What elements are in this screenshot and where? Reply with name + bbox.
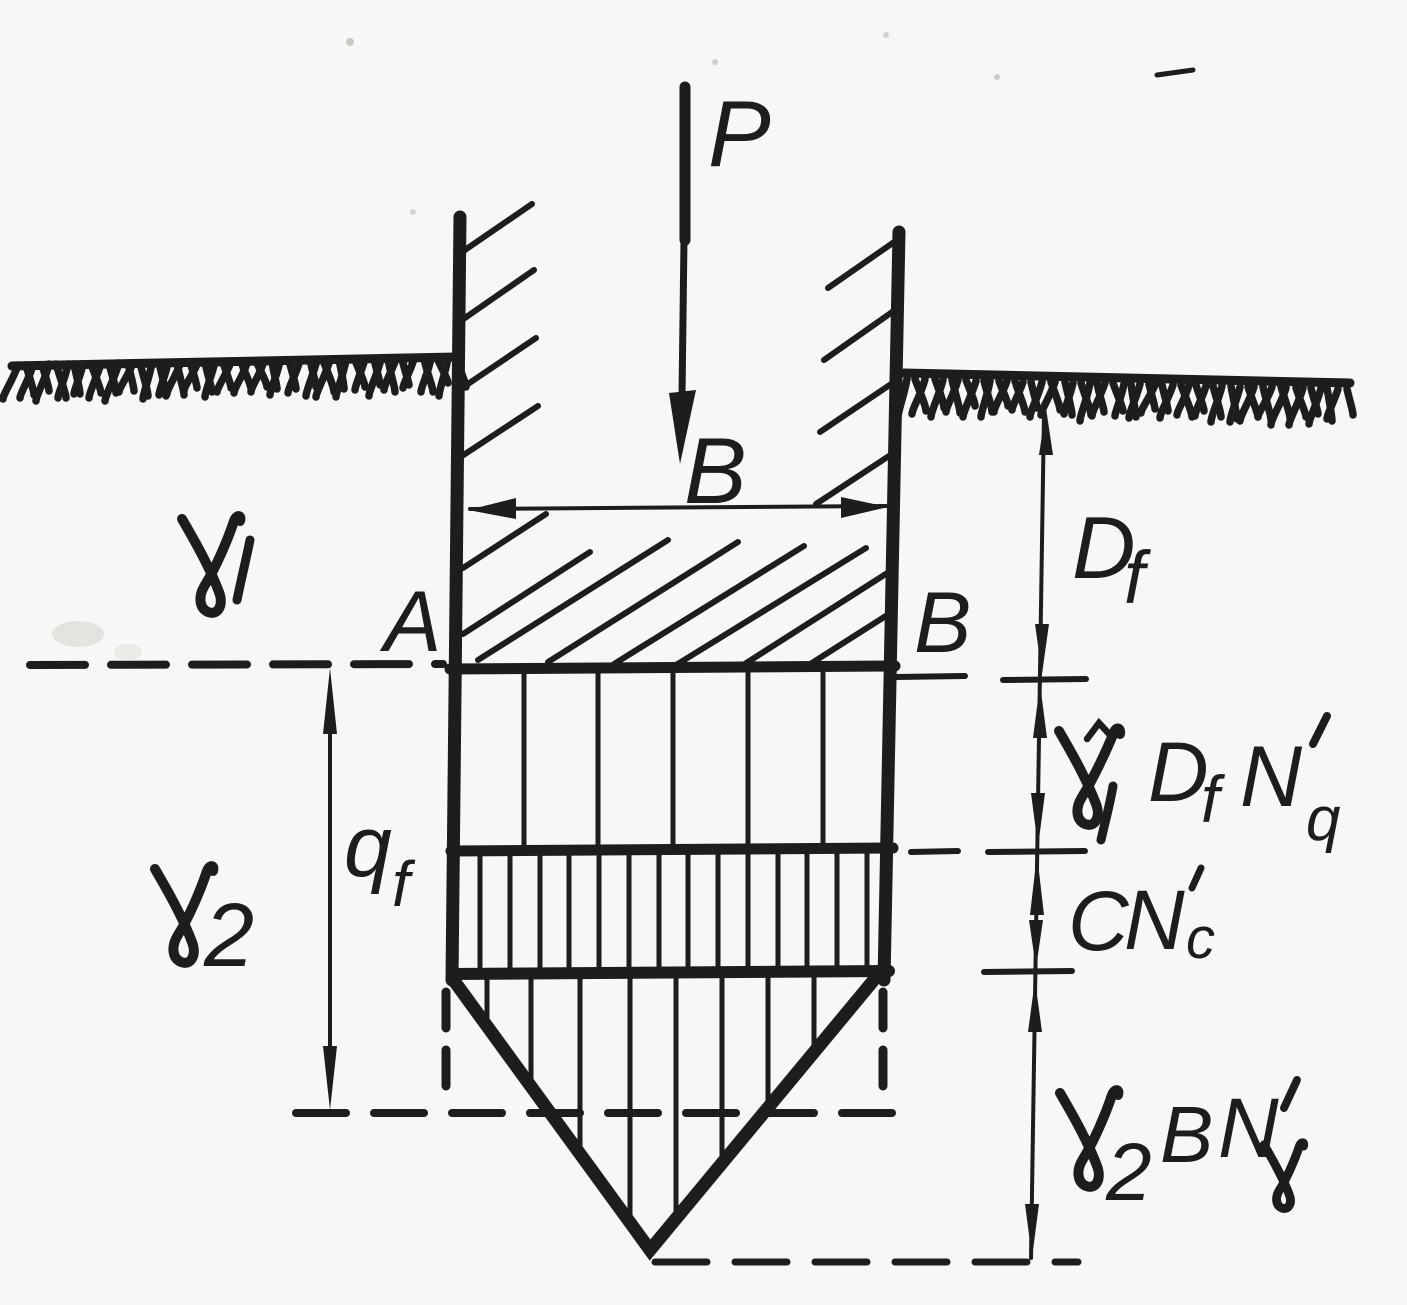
svg-text:q: q (344, 799, 392, 895)
label q_f (344, 799, 416, 920)
svg-text:N: N (1124, 873, 1185, 967)
load arrow P head (669, 390, 696, 464)
svg-text:2: 2 (203, 886, 254, 986)
failure wedge triangle (452, 978, 873, 1250)
left wall of excavation (452, 217, 460, 980)
footing base line AB (450, 666, 895, 669)
label C N'_c (1068, 868, 1215, 971)
ground surface left (12, 357, 456, 366)
svg-text:f: f (1201, 762, 1226, 836)
q_f dimension line (328, 700, 332, 1080)
label gamma2 B N'_gamma (1060, 1080, 1304, 1218)
dashed wedge-depth level line (296, 1109, 893, 1117)
q_f top arrowhead (323, 668, 337, 734)
svg-text:2: 2 (1105, 1127, 1152, 1218)
svg-text:D: D (1148, 725, 1209, 819)
cohesion band comb lines (480, 854, 867, 967)
arrowhead up below footing level (1033, 684, 1047, 738)
label D_f (1072, 498, 1151, 619)
grass hatching left (3, 358, 466, 401)
dash-dot vertical left below wall (442, 992, 451, 1104)
surcharge pressure band comb lines (524, 673, 823, 846)
dash-dot vertical right below wall (879, 992, 888, 1108)
arrowhead up at ground surface (1039, 408, 1053, 455)
q_f bottom arrowhead (323, 1046, 337, 1110)
arrowhead right of B dimension (841, 497, 888, 518)
svg-text:q: q (1306, 785, 1341, 854)
right wall of excavation (884, 232, 899, 980)
arrowhead up below step line 2 (1030, 854, 1044, 915)
wall hatching upper right (816, 240, 897, 504)
arrowhead down at step line 3 (1029, 920, 1043, 968)
tick at step line 2 (911, 851, 1085, 852)
ground surface right (904, 373, 1350, 383)
footing slab hatching (463, 514, 892, 668)
svg-text:P: P (708, 81, 771, 186)
svg-text:B: B (914, 575, 971, 671)
faint scan smudges (52, 32, 1000, 660)
wedge comb lines (487, 978, 814, 1222)
label gamma2 left (155, 866, 254, 986)
svg-text:c: c (1186, 906, 1215, 971)
arrowhead down at footing level (1035, 624, 1049, 674)
arrowhead down at bottom level (1025, 1204, 1039, 1258)
label gamma1 left (182, 516, 250, 613)
label gamma1 D_f N'_q (1059, 716, 1341, 854)
dashed footing level line left (30, 664, 443, 665)
svg-text:B: B (684, 418, 747, 523)
arrowhead down at step line 2 (1031, 793, 1045, 847)
pressure step line 3 (452, 971, 889, 974)
bottom dashed level line (655, 1259, 1078, 1266)
tick at step line 3 (984, 971, 1072, 972)
svg-text:N: N (1240, 729, 1303, 825)
right dimension line (1031, 412, 1044, 1258)
svg-text:C: C (1068, 874, 1130, 968)
grass hatching right (898, 379, 1353, 425)
wall hatching upper left (462, 204, 538, 456)
arrowhead up below step line 3 (1028, 980, 1042, 1032)
stray scan mark top right (1157, 70, 1193, 75)
tick at footing level (896, 676, 1086, 680)
arrowhead left of B dimension (468, 498, 516, 519)
footing width dimension line B (470, 506, 886, 509)
svg-text:B: B (1160, 1090, 1213, 1179)
pressure step line 2 (451, 848, 893, 851)
load arrow P shaft (682, 87, 685, 396)
svg-text:A: A (379, 574, 441, 670)
svg-text:f: f (392, 848, 416, 920)
svg-text:f: f (1124, 536, 1151, 619)
